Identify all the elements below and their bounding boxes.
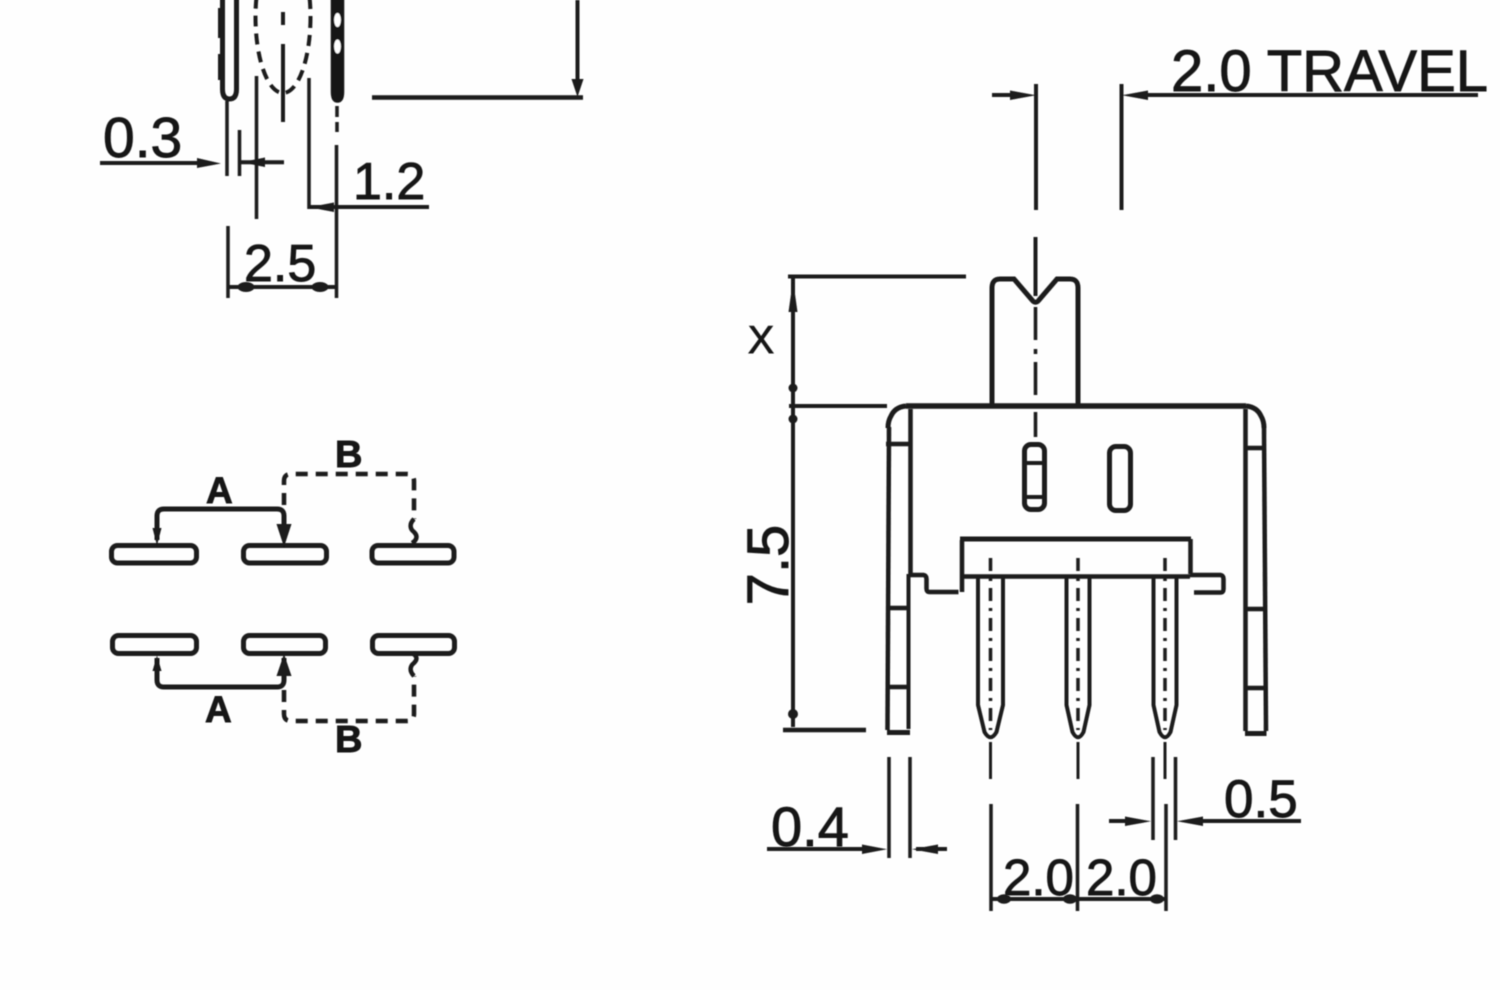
svg-text:2.0: 2.0 (1086, 849, 1157, 906)
svg-text:B: B (335, 719, 362, 761)
svg-text:0.4: 0.4 (771, 795, 849, 858)
svg-text:A: A (205, 689, 232, 730)
svg-text:B: B (335, 434, 362, 476)
svg-text:2.5: 2.5 (244, 235, 316, 293)
svg-text:2.0 TRAVEL: 2.0 TRAVEL (1171, 39, 1488, 104)
svg-text:7.5: 7.5 (736, 525, 801, 606)
svg-text:X: X (748, 319, 774, 362)
svg-text:0.3: 0.3 (103, 106, 182, 170)
svg-text:0.5: 0.5 (1224, 770, 1298, 829)
svg-text:1.2: 1.2 (353, 153, 425, 211)
svg-text:2.0: 2.0 (1003, 849, 1074, 906)
svg-text:A: A (206, 470, 233, 511)
